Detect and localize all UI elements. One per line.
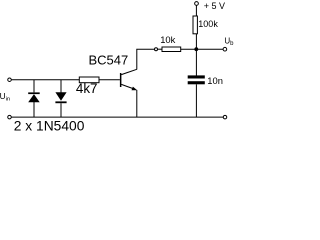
terminal Un- (input bottom) (8, 115, 12, 119)
wire supply to 100k (195, 5, 197, 16)
capacitor C1 10n (188, 75, 205, 84)
svg-text:10k: 10k (160, 34, 175, 45)
wire node to capacitor (195, 49, 197, 76)
terminal bottom right (223, 115, 227, 119)
wire 100k to node (195, 34, 197, 49)
wire to 10k (158, 48, 163, 50)
svg-text:10n: 10n (207, 75, 223, 86)
wire bottom rail (11, 116, 223, 118)
node collector tap circle (155, 48, 158, 51)
terminal Ub (output) (223, 47, 227, 51)
resistor 4k7 (79, 77, 99, 83)
resistor 10k (162, 47, 181, 52)
wire 10k to output (181, 48, 224, 50)
node junction dot (194, 47, 198, 51)
wire base (99, 79, 120, 81)
terminal Un+ (input top) (8, 78, 12, 82)
svg-text:2 x 1N5400: 2 x 1N5400 (14, 118, 85, 133)
diode D1 (left, anode bottom) (28, 80, 40, 117)
wire capacitor to bottom rail (195, 84, 197, 117)
svg-text:+ 5 V: + 5 V (204, 1, 225, 11)
resistor 100k (193, 16, 197, 34)
wire top rail (11, 79, 79, 81)
svg-text:Uin: Uin (0, 91, 10, 102)
wire emitter (136, 90, 138, 117)
transistor Q1 BC547 (120, 69, 137, 90)
terminal +5V (195, 2, 199, 6)
svg-text:100k: 100k (198, 19, 218, 29)
svg-text:BC547: BC547 (89, 53, 129, 68)
wire collector (137, 49, 155, 69)
svg-text:4k7: 4k7 (76, 81, 98, 96)
diode D2 (right, cathode bottom) (55, 80, 66, 117)
svg-text:Ub: Ub (224, 37, 234, 48)
